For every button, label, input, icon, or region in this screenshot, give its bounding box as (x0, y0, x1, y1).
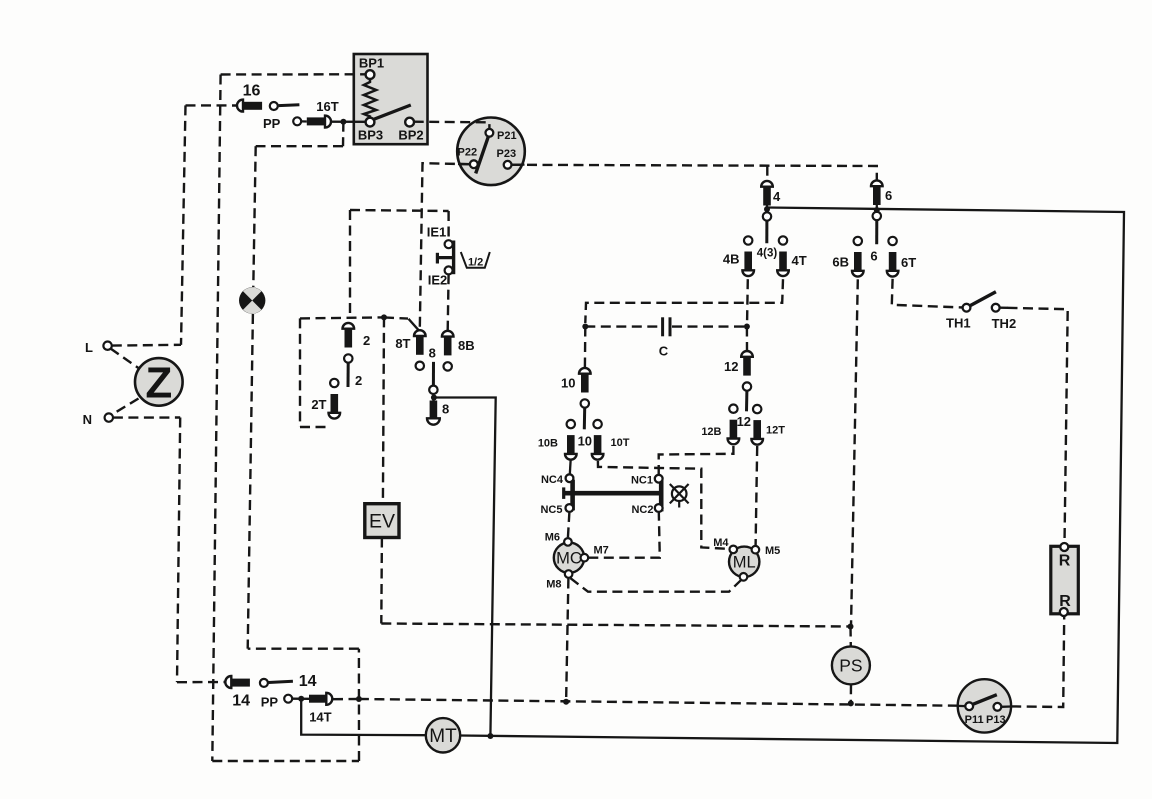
svg-text:4B: 4B (723, 252, 740, 267)
svg-text:12T: 12T (766, 425, 785, 437)
svg-text:6: 6 (885, 188, 892, 203)
terminal BP3 (366, 118, 375, 127)
wire long left vertical bus (from top row down to 14-box bottom) (212, 75, 220, 762)
wire C-left node down to connector 10 (584, 327, 587, 368)
svg-text:16: 16 (243, 83, 261, 100)
wire M8 to ML bottom (571, 578, 742, 592)
switch bank NC1-NC5 gang bar (564, 478, 662, 511)
capacitor C (659, 317, 670, 358)
svg-text:P11: P11 (965, 714, 984, 726)
selector P2 circle (458, 129, 525, 173)
wire 2-box bottom edge stub (300, 426, 331, 428)
wire EV riser (node down to EV coil) (383, 317, 384, 503)
svg-text:Z: Z (145, 359, 172, 408)
svg-text:10: 10 (561, 376, 575, 391)
terminal N (105, 413, 113, 421)
svg-text:14: 14 (299, 673, 317, 690)
svg-text:R: R (1059, 553, 1071, 570)
node 8 (431, 395, 437, 401)
wire L riser vertical (181, 105, 186, 344)
wire IE1 feed left riser (349, 210, 351, 318)
wire 14-box right edge (358, 649, 361, 761)
svg-text:2T: 2T (311, 397, 326, 412)
svg-text:4: 4 (773, 189, 781, 204)
node on main line at 4 (766, 205, 768, 213)
node C-right (744, 324, 750, 330)
connector 2 (top half) (343, 323, 355, 363)
svg-text:MT: MT (429, 726, 457, 747)
wire L to Z diagonal (111, 349, 141, 370)
connector 10T (592, 420, 604, 460)
pin 8 middle (432, 362, 435, 386)
terminal NC5 (566, 504, 574, 512)
wire node to 8T leader start (384, 317, 408, 318)
wire BP2 row to P2 selector (414, 122, 490, 130)
terminal BP1 (366, 70, 375, 79)
wire 6T down to TH1 (892, 279, 963, 308)
wire L horizontal to corner (112, 344, 181, 347)
svg-text:6B: 6B (832, 255, 849, 270)
pin 6 (875, 220, 878, 244)
connector 16 (cap, pin, terminal, blade) (237, 83, 299, 112)
wire N row to connector 14 (177, 681, 225, 684)
connector 12 (741, 351, 753, 391)
selector P11 body (958, 679, 1011, 732)
terminal BP2 (405, 118, 414, 127)
wire P22 row to 8T riser (420, 163, 471, 329)
svg-text:R: R (1059, 593, 1071, 610)
wire leader diagonal to 8T (409, 319, 421, 333)
node PP-14T (298, 696, 304, 702)
pin blade of 2 (347, 363, 350, 387)
svg-text:MC: MC (556, 550, 582, 568)
wire top dashed row to BP1 (221, 73, 366, 76)
connector 4T (777, 236, 789, 276)
lamp (indicator light) (239, 287, 265, 313)
svg-text:12: 12 (737, 414, 751, 429)
connector 6 (871, 180, 883, 220)
connector 8B (442, 331, 454, 371)
wire 16-row horizontal from L-riser to connector 16 (186, 104, 237, 106)
connector 10B (565, 420, 577, 460)
node MT line (487, 733, 493, 739)
wire IE1 feed horizontal (350, 210, 449, 211)
connector 16T with PP terminal (263, 99, 339, 131)
svg-text:BP1: BP1 (359, 56, 384, 71)
terminal L (103, 342, 111, 350)
wire 14T row from cap to box edge (333, 698, 359, 701)
svg-text:14T: 14T (309, 710, 331, 725)
motor ML (713, 537, 780, 581)
connector 4B (742, 236, 754, 276)
connector 2T (bottom half) (329, 379, 341, 419)
terminal NC1 (655, 475, 663, 483)
wire 2-box top edge to node (300, 317, 384, 318)
heater R (1051, 543, 1079, 616)
wire TH2 to R top riser (1008, 308, 1068, 543)
svg-text:8B: 8B (458, 338, 475, 353)
svg-text:10B: 10B (538, 438, 558, 450)
svg-text:M5: M5 (765, 545, 780, 557)
wire EV bottom down (380, 538, 383, 624)
terminal NC4 (566, 474, 574, 482)
svg-text:6: 6 (870, 249, 877, 264)
svg-text:M8: M8 (546, 579, 561, 591)
svg-text:BP3: BP3 (358, 128, 383, 143)
svg-text:TH2: TH2 (992, 316, 1017, 331)
wire PP-box bottom edge (256, 145, 343, 147)
node on main line at 6 (876, 205, 878, 213)
svg-text:2: 2 (363, 333, 370, 348)
connector 6T (887, 237, 899, 277)
wire C right lead (672, 325, 747, 327)
node PS bottom row (848, 700, 854, 706)
svg-text:L: L (85, 340, 93, 355)
wire IE2 down to 8B (447, 274, 450, 330)
svg-text:N: N (83, 412, 92, 427)
node 2box-EV (381, 314, 387, 320)
wire 6B vertical down to PS node (851, 279, 858, 626)
connector 14T with PP terminal (261, 693, 333, 725)
wire stub from P23 row down to connector 4 (766, 166, 768, 181)
wire PS bottom stub (850, 684, 853, 703)
svg-text:10: 10 (578, 434, 592, 449)
svg-text:P22: P22 (458, 147, 478, 159)
pin 10 middle (583, 408, 586, 429)
svg-text:P21: P21 (497, 130, 517, 142)
selector P2 body (457, 118, 525, 186)
wire IE1 stub (447, 211, 449, 240)
wire PP-box right edge from 16T node down (342, 122, 345, 147)
wire P13 to R riser (1011, 616, 1064, 707)
svg-text:P13: P13 (986, 714, 1006, 726)
connector 8 (bottom, cap down) (427, 401, 449, 425)
svg-text:12: 12 (724, 359, 738, 374)
svg-text:8: 8 (429, 345, 436, 360)
wire 4B down to C-right node (746, 279, 749, 326)
wire EV row horizontal to PS node (381, 624, 850, 627)
svg-text:8T: 8T (395, 336, 410, 351)
connector 8T (414, 330, 426, 370)
terminal NC2 (655, 504, 663, 512)
svg-text:NC4: NC4 (541, 474, 564, 486)
wire solid MT feed from PP node (301, 699, 426, 736)
pin 12 middle (745, 391, 748, 412)
wire long bottom dashed row 14T to P11 (359, 699, 958, 706)
svg-text:10T: 10T (611, 437, 630, 449)
relay box BP (358, 56, 424, 143)
motor MC (545, 532, 609, 591)
wire N horizontal to corner (113, 416, 180, 419)
wire M7 to NC2 (588, 512, 660, 558)
svg-text:M7: M7 (594, 545, 609, 557)
svg-text:C: C (659, 344, 669, 359)
pin 4(3) (765, 221, 768, 244)
svg-text:TH1: TH1 (946, 316, 971, 331)
switch blade BP3-BP2 (373, 105, 411, 120)
svg-text:PP: PP (263, 116, 281, 131)
motor MT (426, 718, 460, 752)
svg-text:1/2: 1/2 (468, 256, 483, 268)
svg-text:NC2: NC2 (631, 504, 653, 516)
svg-text:IE1: IE1 (427, 225, 447, 240)
connector 12B (728, 405, 740, 445)
node C-left (582, 324, 588, 330)
wire PS top stub (849, 627, 852, 647)
coil EV (365, 504, 399, 538)
1/2 tub mark (461, 252, 490, 268)
svg-text:16T: 16T (316, 99, 338, 114)
svg-text:M6: M6 (545, 532, 560, 544)
node PS top (848, 624, 854, 630)
connector 10 (579, 368, 591, 408)
wire NC5 to M6 (568, 512, 570, 538)
svg-text:14: 14 (232, 693, 250, 710)
svg-text:P23: P23 (497, 148, 517, 160)
wire N to Z diagonal (112, 399, 139, 415)
svg-text:12B: 12B (701, 426, 721, 438)
wire P23 row to connector 6 (512, 165, 877, 180)
node M8 bottom row (563, 699, 569, 705)
crossed lamp symbol at NC1 (670, 484, 689, 508)
wire 12T down to M5 (756, 446, 758, 545)
svg-text:NC1: NC1 (631, 475, 653, 487)
selector P11-P13 circle (958, 695, 1011, 726)
wire 14-box top edge (248, 648, 359, 650)
wire C left lead (585, 325, 660, 328)
connector 12T (751, 405, 763, 445)
wire 2-box left edge (299, 318, 301, 427)
svg-text:2: 2 (355, 373, 362, 388)
wire M8 vertical down to bottom row (566, 579, 568, 702)
svg-text:EV: EV (369, 511, 395, 533)
wire 4T down-left to C-left node (585, 279, 783, 323)
svg-text:6T: 6T (901, 255, 916, 270)
wire 12B down to NC1 (659, 446, 734, 474)
wire lamp vertical bus (PP-box corner down to 14-box top corner), broken at lamp (253, 146, 255, 287)
svg-text:4(3): 4(3) (757, 248, 778, 260)
pressure switch PS (832, 646, 870, 684)
svg-text:4T: 4T (792, 253, 807, 268)
svg-text:PP: PP (261, 694, 279, 709)
wire solid 16T node to BP3 (332, 121, 366, 123)
connector 14 (cap, pin, terminal, blade) (225, 673, 316, 710)
wire C-right node down to connector 12 (746, 327, 748, 351)
wire 14-box bottom edge (212, 760, 359, 762)
wire N riser down (177, 418, 180, 683)
thermostat switch TH1-TH2 (946, 292, 1016, 331)
wire solid 10B to NC4 (569, 459, 572, 474)
relay box BP body (354, 54, 428, 144)
node 14T box edge (356, 696, 362, 702)
push switch IE1/IE2 (427, 225, 454, 288)
connector 6B (852, 237, 864, 277)
node at 16T-BP3 (340, 119, 346, 125)
svg-text:PS: PS (839, 656, 862, 676)
wire 10T down and across to ML M4 (598, 461, 730, 549)
svg-text:M4: M4 (713, 537, 729, 549)
svg-text:8: 8 (442, 402, 449, 417)
connector 4 (761, 181, 773, 221)
svg-text:NC5: NC5 (540, 504, 562, 516)
svg-text:BP2: BP2 (398, 128, 423, 143)
svg-text:ML: ML (733, 554, 756, 572)
wire solid 8-node to right riser down to MT line (434, 398, 496, 737)
suppressor Z (135, 358, 183, 407)
svg-text:IE2: IE2 (428, 273, 448, 288)
wire solid main line 4 to 6 to right border down and along bottom to MT (460, 208, 1124, 744)
resistor inside BP (BP1 to BP3) (364, 79, 376, 118)
